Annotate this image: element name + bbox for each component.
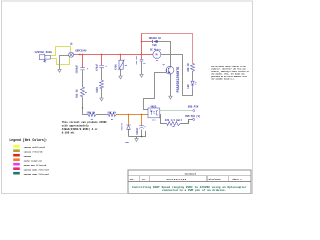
svg-text:the snubber diode D-1.: the snubber diode D-1. <box>211 79 235 81</box>
svg-text:120VAC Unfiltered: 120VAC Unfiltered <box>24 146 46 149</box>
junction node PWM corner <box>188 121 189 122</box>
legend swatch 24VDC CLEAN out <box>13 158 20 161</box>
wire orange 24VDC rail <box>116 114 148 116</box>
junction node bottom rail <box>141 136 143 138</box>
wire grey C2 cap to resistor <box>101 68 103 80</box>
legend swatch 24VDC 50% filtered <box>13 163 20 166</box>
IGBT Q1 <box>166 66 174 74</box>
svg-text:24VDC CLEAN out: 24VDC CLEAN out <box>24 159 43 162</box>
wire red 220VDC bus <box>73 54 153 56</box>
junction node riser <box>141 54 143 56</box>
wire yellow lower AC <box>50 57 69 65</box>
zener diode 24V <box>126 125 130 129</box>
junction bridge output <box>79 54 81 56</box>
svg-text:FWD: FWD <box>152 44 157 47</box>
wire yellow upper AC <box>50 47 70 56</box>
junction node zener drop <box>128 114 130 116</box>
svg-text:Mainboard: Mainboard <box>185 173 197 176</box>
svg-text:220VDC 60Hz filtered: 220VDC 60Hz filtered <box>24 173 50 176</box>
pin GND_PIN <box>193 110 195 112</box>
page background <box>0 0 255 197</box>
wire grey zener to bottom rail <box>128 130 130 137</box>
svg-text:120VAC 60Hz: 120VAC 60Hz <box>34 51 52 54</box>
wire red drop R3 <box>120 55 122 61</box>
svg-text:45K 5W: 45K 5W <box>76 89 79 98</box>
svg-text:10K 1W: 10K 1W <box>107 112 116 115</box>
wire red right drop to 40K <box>192 34 194 64</box>
wire red diode stub <box>142 41 153 43</box>
resistor R1 drop (45K 5W) <box>81 87 85 97</box>
svg-text:220VDC: 220VDC <box>24 155 32 158</box>
junction node C1 lower <box>82 107 83 108</box>
title block <box>128 170 251 193</box>
svg-text:10K 1W: 10K 1W <box>86 112 95 115</box>
resistor 40K 2W <box>191 63 195 71</box>
svg-text:104 2KV: 104 2KV <box>135 55 138 64</box>
junction node C3 drop <box>141 114 143 116</box>
resistor 10K 1W left <box>88 113 96 117</box>
wire grey diode to collector <box>158 42 171 67</box>
note right <box>211 66 249 81</box>
svg-text:DC Motor: DC Motor <box>150 49 162 52</box>
wire grey cap to bottom rail <box>141 130 143 137</box>
junction node C1 drop <box>82 54 84 56</box>
snubber capacitor <box>140 59 144 61</box>
svg-text:FGA25N120ANTD: FGA25N120ANTD <box>176 67 180 93</box>
svg-text:40K 2W: 40K 2W <box>187 63 190 72</box>
ground drop C2 <box>100 98 103 101</box>
legend swatch 220VDC 50Hz filtered <box>13 167 20 170</box>
svg-text:Legend [Net Colors]:: Legend [Net Colors]: <box>9 138 47 142</box>
svg-text:Sheet 1: Sheet 1 <box>232 178 242 181</box>
resistor R3 (470K 2W) <box>119 60 125 70</box>
wire grey motor out <box>161 55 193 96</box>
wire grey 220R to PWM pin <box>181 120 193 124</box>
svg-text:120VAC Filtered: 120VAC Filtered <box>24 150 43 153</box>
wire red drop C1 <box>82 55 84 68</box>
ground snubber <box>140 74 143 77</box>
wire red riser to top rail <box>141 33 143 55</box>
wire grey C1 resistor to 0V rail <box>83 97 89 114</box>
svg-text:4N25: 4N25 <box>150 105 157 108</box>
svg-text:100uF: 100uF <box>136 127 139 135</box>
wire red drop C2 <box>101 55 103 66</box>
capacitor C3 (100uF) <box>139 126 144 129</box>
wire grey C1 cap to resistor <box>82 70 84 87</box>
junction node C2 drop <box>101 54 103 56</box>
svg-text:C: C <box>193 117 194 119</box>
legend swatch 220VDC 60Hz filtered <box>13 172 20 175</box>
svg-text:470uF: 470uF <box>96 63 99 71</box>
svg-text:GBPC2540: GBPC2540 <box>75 49 87 52</box>
legend swatch 220VDC <box>13 154 20 157</box>
wire grey gate net <box>144 72 167 109</box>
svg-text:100K: 100K <box>96 87 99 93</box>
wire orange zener drop <box>128 115 130 125</box>
wire grey 0V rail between 10K resistors <box>96 114 108 116</box>
svg-text:1N5408 6A: 1N5408 6A <box>149 37 162 40</box>
AC source plug X1 <box>39 54 50 63</box>
wire grey bridge AC neutral <box>60 56 70 70</box>
node marker above bridge <box>70 43 72 45</box>
ground R3 <box>119 76 122 79</box>
ground below AC source <box>58 69 61 72</box>
resistor 10K 1W right <box>108 113 116 117</box>
wire red top rail <box>142 33 194 35</box>
svg-text:C6: C6 <box>143 63 145 65</box>
wire grey C2 resistor to ground <box>101 88 103 98</box>
ground zener/cap rail <box>135 139 138 142</box>
svg-text:1N4749: 1N4749 <box>120 122 123 130</box>
DC motor M1 <box>153 51 161 60</box>
pin PWM PIN 9 <box>193 119 195 121</box>
capacitor C2 (470uF) <box>99 65 104 68</box>
flyback diode D1 <box>152 40 157 43</box>
snubber wire to ground <box>141 61 143 74</box>
svg-text:2200uF: 2200uF <box>76 64 79 73</box>
note left <box>62 121 108 135</box>
wire teal opto collector out <box>160 110 193 112</box>
wire grey bottom rail ground stub <box>136 137 138 139</box>
legend swatch 120VAC Unfiltered <box>13 145 20 148</box>
svg-text:GND_PIN: GND_PIN <box>188 105 199 108</box>
svg-text:0.160 mA.: 0.160 mA. <box>62 132 76 135</box>
resistor 220 1/4W <box>167 122 181 126</box>
snubber drop below bus <box>141 55 143 59</box>
resistor R4 drop (100K) <box>100 80 104 88</box>
svg-text:220 1/4 Watt: 220 1/4 Watt <box>165 119 183 122</box>
svg-text:220VDC 50Hz filtered: 220VDC 50Hz filtered <box>24 168 50 171</box>
LED D3 <box>191 80 197 89</box>
svg-text:connected to a PWM pin of an A: connected to a PWM pin of an Arduino. <box>162 188 226 192</box>
junction node R2 drop <box>120 54 122 56</box>
svg-text:24VDC 50% filtered: 24VDC 50% filtered <box>24 164 47 167</box>
border frame <box>2 1 253 194</box>
optocoupler IC1 4N25 <box>148 108 160 118</box>
svg-text:5/16/2010: 5/16/2010 <box>209 178 222 181</box>
capacitor C1 (2200uF 400V) <box>80 68 85 71</box>
wire grey 40K to LED link <box>192 71 194 80</box>
bridge rectifier B1 <box>69 52 74 57</box>
wire orange cap drop <box>141 115 143 126</box>
svg-text:Ver.: Ver. <box>130 178 135 181</box>
svg-text:470K: 470K <box>115 64 118 70</box>
svg-text:LED: LED <box>187 84 190 89</box>
wire grey bottom rail <box>129 131 146 136</box>
legend swatch 120VAC Filtered <box>13 149 20 152</box>
wire grey opto emitter to 220R <box>160 115 167 124</box>
junction node diode row <box>141 41 143 43</box>
svg-text:DESCRIPTION: DESCRIPTION <box>167 178 187 181</box>
wire grey R3 to ground <box>120 69 122 76</box>
wire grey emitter to ground <box>170 74 172 96</box>
ground emitter <box>169 96 172 99</box>
